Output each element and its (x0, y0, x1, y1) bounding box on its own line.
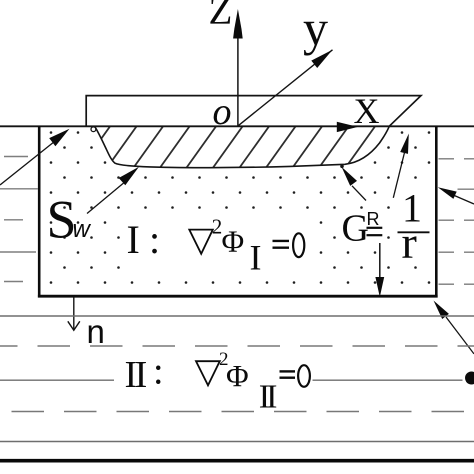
region I box right edge (435, 126, 438, 298)
region I box left edge (38, 126, 41, 298)
left far-field line 2 (0, 188, 38, 190)
bottom-right annotation arrow to box corner (446, 317, 474, 354)
zero (region I) (293, 233, 304, 257)
region II line 3 (solid, broken by text) (0, 379, 114, 381)
downward G arrow (379, 243, 381, 280)
x axis arrowhead (337, 122, 358, 132)
normal vector n arrow (73, 298, 75, 330)
region II line 1 (solid) (0, 315, 474, 317)
right far-field dashed line 1 (439, 158, 474, 160)
nabla of region I equation (189, 230, 213, 254)
region I dotted field (41, 128, 435, 295)
stern junction dot (340, 165, 344, 169)
left far-field line 1 (4, 156, 28, 158)
right far-field dashed line 2 (458, 188, 474, 190)
region I box bottom edge (38, 295, 438, 298)
right far-field dashed line 4 (439, 251, 474, 253)
svg-text:Z: Z (209, 0, 233, 33)
S_w arrow (to hull bottom) (87, 181, 126, 214)
zero (region II) (298, 365, 310, 387)
free surface / waterline (x-axis) (0, 125, 474, 127)
left far-field line 5 (4, 281, 23, 283)
svg-text::: : (153, 351, 164, 393)
svg-text:y: y (303, 0, 328, 56)
right far-field dashed line 5 (439, 283, 474, 285)
far-field source point (465, 372, 474, 385)
fraction bar (398, 231, 430, 233)
svg-text:Φ: Φ (222, 224, 245, 259)
right annotation arrow to box edge (452, 195, 474, 205)
region II line 4 (dashed) (0, 411, 474, 413)
svg-text::: : (149, 217, 160, 262)
svg-text:II: II (125, 354, 147, 396)
left far-field line 3 (4, 219, 23, 221)
svg-text:n: n (87, 313, 105, 350)
svg-text:I: I (127, 217, 140, 262)
equals sign (G) (367, 227, 383, 229)
bottom boundary thick line (0, 459, 474, 463)
S_w annotation arrow (to waterline) (0, 140, 57, 186)
y axis (238, 50, 333, 127)
left far-field line 4 (0, 251, 36, 253)
svg-text:I: I (250, 238, 262, 278)
equals sign (region I) (273, 240, 290, 242)
svg-text:Φ: Φ (226, 358, 249, 393)
region I equation background (120, 216, 312, 276)
hull interior (white) (95, 126, 389, 167)
svg-text:r: r (402, 217, 417, 268)
z axis (237, 16, 239, 126)
svg-text:R: R (367, 209, 380, 229)
arrow to free surface right of hull (393, 153, 404, 198)
svg-text:w: w (73, 216, 92, 243)
hull hatching (76, 124, 457, 174)
hull outline (wetted surface) (95, 126, 389, 167)
right far-field dashed line 3 (439, 219, 474, 221)
plate (hull above waterline) (86, 96, 421, 127)
equals sign (region II) (280, 370, 296, 372)
y axis arrowhead (311, 50, 332, 68)
region II line 2 (dashed) (0, 345, 474, 347)
z axis arrowhead (233, 9, 243, 39)
svg-text:G: G (342, 208, 369, 250)
svg-text:X: X (354, 91, 380, 131)
svg-text:o: o (213, 91, 232, 133)
region II line 5 (solid) (0, 441, 474, 443)
G source label background (339, 209, 386, 243)
nabla of region II equation (196, 361, 220, 385)
bow hook circle (91, 127, 96, 132)
arrow to stern corner (352, 186, 366, 201)
